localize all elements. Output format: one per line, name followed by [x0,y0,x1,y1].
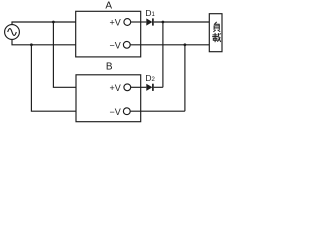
AC source [5,25,20,40]
node: tap on top wire [52,21,55,24]
node: negative bus junction [184,43,187,46]
terminal +V of B [110,83,131,93]
diode D2 [146,84,153,91]
wire: D2 cathode to OR junction riser [154,86,163,88]
wire: A -V to load negative terminal [130,44,209,46]
terminal -V of A [110,41,131,51]
wire: AC top terminal to box A upper input [12,22,76,25]
svg-text:B: B [106,62,113,73]
wire: D1 cathode to load positive terminal [154,21,210,23]
wire: AC bottom terminal to box A lower input [12,39,76,44]
svg-text:−V: −V [110,41,121,51]
wire: negative bus down to B -V [184,45,186,111]
diode D1 [146,18,153,25]
load box [209,14,222,52]
label load (CJK 负载) [212,22,221,42]
node: tap on bottom wire [30,43,33,46]
svg-text:D2: D2 [145,73,155,83]
svg-text:+V: +V [110,83,121,93]
svg-text:−V: −V [110,107,121,117]
wire: A +V to D1 anode [131,21,147,23]
power supply A box [76,11,141,57]
node: diode-OR output junction [162,21,165,24]
terminal -V of B [110,107,131,117]
svg-text:A: A [105,1,112,12]
wire: B -V to negative bus riser [130,110,185,112]
terminal +V of A [110,18,131,28]
wire: bottom tap down to box B lower input [31,45,76,111]
wire: top tap down to box B upper input [53,22,76,87]
svg-text:D1: D1 [145,8,155,18]
svg-text:+V: +V [110,18,121,28]
power supply B box [76,75,141,122]
wire: B +V to D2 anode [131,86,147,88]
wire: OR junction down to D2 cathode [162,22,164,87]
